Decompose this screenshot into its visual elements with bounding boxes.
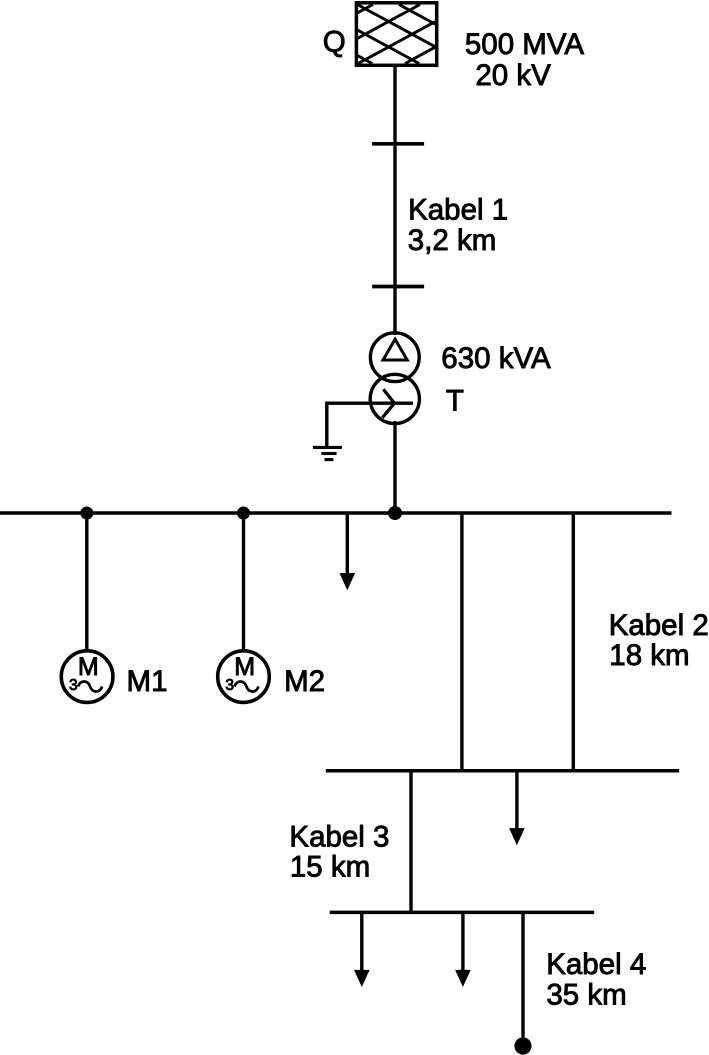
cable termination tick upper (372, 142, 424, 146)
cable termination tick lower (372, 285, 424, 289)
end dot Kabel 4 (514, 1037, 531, 1054)
transformer T winding 1 (delta) (370, 333, 419, 382)
svg-text:Kabel 2: Kabel 2 (609, 609, 709, 642)
svg-text:3,2 km: 3,2 km (408, 224, 497, 257)
load arrow on busbar 1 (340, 513, 356, 590)
svg-text:18 km: 18 km (609, 639, 689, 672)
svg-text:M1: M1 (127, 665, 168, 698)
junction dot M2 (237, 507, 250, 520)
wire busbar 1 to motor M2 (242, 513, 245, 651)
network feeder Q (356, 3, 436, 66)
load arrow 2 on busbar 3 (455, 912, 471, 987)
svg-text:Q: Q (323, 26, 346, 59)
motor M2 (218, 651, 270, 703)
wire busbar 1 to motor M1 (85, 513, 88, 651)
svg-text:630 kVA: 630 kVA (441, 342, 551, 375)
transformer T winding 2 (zigzag) (327, 374, 420, 423)
ground (313, 402, 342, 460)
cable Kabel 3 (409, 771, 412, 913)
cable Kabel 2 line b (572, 513, 575, 771)
busbar 2 (326, 769, 679, 773)
svg-text:M: M (78, 653, 99, 681)
svg-text:20 kV: 20 kV (475, 59, 551, 92)
svg-text:T: T (446, 385, 464, 418)
busbar 1 (0, 511, 672, 515)
svg-text:35 km: 35 km (546, 979, 626, 1012)
wire transformer to busbar 1 (393, 421, 396, 513)
svg-text:Kabel 3: Kabel 3 (289, 821, 389, 854)
junction dot transformer/busbar 1 (388, 506, 402, 520)
svg-text:Kabel 1: Kabel 1 (408, 194, 508, 227)
junction dot M1 (80, 507, 93, 520)
svg-text:500 MVA: 500 MVA (465, 28, 584, 61)
cable Kabel 4 (521, 912, 524, 1040)
svg-text:3: 3 (225, 677, 234, 694)
svg-text:3: 3 (69, 677, 78, 694)
cable Kabel 2 line a (460, 513, 463, 771)
svg-text:M2: M2 (284, 665, 325, 698)
motor M1 (61, 651, 113, 703)
load arrow 1 on busbar 3 (354, 912, 370, 987)
load arrow on busbar 2 (509, 771, 525, 845)
svg-text:Kabel 4: Kabel 4 (546, 948, 646, 981)
wire feeder to transformer (393, 65, 396, 335)
svg-text:15 km: 15 km (290, 850, 370, 883)
busbar 3 (330, 911, 595, 915)
svg-text:M: M (234, 653, 255, 681)
